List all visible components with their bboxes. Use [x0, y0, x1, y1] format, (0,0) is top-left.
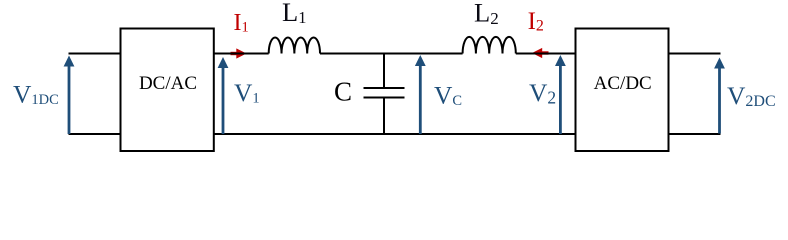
wire bottom-left (V1DC to DC/AC box): [69, 133, 122, 135]
voltage arrow V2: [555, 55, 566, 134]
inductor L1: [269, 37, 320, 53]
voltage arrow V2DC: [714, 58, 725, 134]
inductor L2: [463, 37, 516, 54]
current arrow I2: [532, 48, 549, 58]
wire top middle-left (box to L1): [214, 53, 269, 55]
converter box U2 AC/DC: [576, 29, 669, 152]
voltage arrow V1: [218, 57, 229, 134]
voltage arrow V1DC: [64, 56, 75, 135]
wire top middle (L1 to L2 across capacitor node): [320, 53, 463, 55]
wire bottom-right (AC/DC box to V2DC): [669, 133, 721, 135]
wire bottom middle (box to box): [214, 133, 576, 135]
wire top L2 to AC/DC box: [516, 53, 576, 55]
wire top-right (AC/DC box to V2DC): [669, 53, 721, 55]
current arrow I1: [231, 48, 247, 58]
svg-text:DC/AC: DC/AC: [139, 73, 197, 94]
converter box U1 DC/AC: [121, 29, 214, 152]
capacitor C: [364, 54, 405, 135]
wire top-left (V1DC to DC/AC box): [69, 53, 122, 55]
svg-text:C: C: [334, 77, 352, 107]
svg-text:AC/DC: AC/DC: [594, 73, 652, 94]
voltage arrow VC: [415, 55, 426, 134]
